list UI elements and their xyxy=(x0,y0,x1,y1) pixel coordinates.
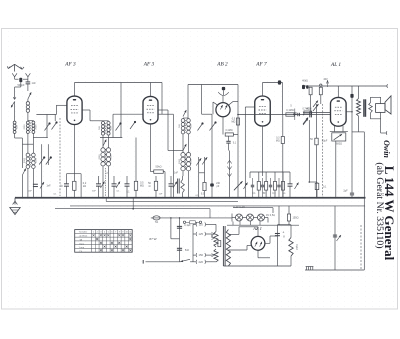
svg-text:2000: 2000 xyxy=(36,124,38,130)
svg-text:2nF: 2nF xyxy=(28,191,32,193)
svg-text:+: + xyxy=(282,230,284,234)
svg-text:5nF: 5nF xyxy=(92,191,96,193)
svg-text:40kΩ: 40kΩ xyxy=(302,80,308,83)
svg-text:Owin: Owin xyxy=(382,140,391,158)
svg-text:1nF: 1nF xyxy=(46,185,51,188)
svg-text:0,1MΩ: 0,1MΩ xyxy=(225,129,232,132)
svg-text:Schalter: Schalter xyxy=(79,231,87,234)
svg-text:kΩ: kΩ xyxy=(83,185,86,188)
svg-text:500pF: 500pF xyxy=(17,84,25,87)
svg-text:AL 1: AL 1 xyxy=(330,62,341,68)
svg-text:AF 7: AF 7 xyxy=(255,62,267,68)
svg-text:MΩ: MΩ xyxy=(276,140,280,143)
svg-text:0,7MΩ: 0,7MΩ xyxy=(302,107,309,110)
svg-text:5nF: 5nF xyxy=(185,249,190,252)
svg-text:220: 220 xyxy=(199,260,204,264)
svg-text:(ab Gerät Nr. 335110): (ab Gerät Nr. 335110) xyxy=(374,162,385,248)
svg-text:1nF: 1nF xyxy=(174,173,179,175)
svg-text:ab Werk: ab Werk xyxy=(79,235,88,238)
svg-text:600Ω: 600Ω xyxy=(336,143,342,146)
svg-text:50kΩ: 50kΩ xyxy=(156,166,162,169)
svg-text:5000: 5000 xyxy=(24,157,26,163)
svg-text:2000: 2000 xyxy=(36,157,38,163)
svg-text:MΩ: MΩ xyxy=(232,121,236,124)
svg-text:125: 125 xyxy=(199,232,204,236)
svg-text:0,1MΩ: 0,1MΩ xyxy=(286,109,294,112)
svg-text:7Ω: 7Ω xyxy=(155,220,158,224)
svg-text:2μF: 2μF xyxy=(343,190,348,193)
svg-text:110: 110 xyxy=(199,223,204,227)
svg-text:2000: 2000 xyxy=(24,124,26,130)
svg-text:40V: 40V xyxy=(323,78,328,81)
svg-text:Lang: Lang xyxy=(79,247,85,249)
svg-text:AB 2: AB 2 xyxy=(216,62,228,68)
svg-text:AZ 1: AZ 1 xyxy=(252,226,262,231)
svg-text:MΩ: MΩ xyxy=(140,185,144,188)
svg-text:Kurz: Kurz xyxy=(79,242,84,245)
svg-text:Feld: Feld xyxy=(295,244,299,250)
svg-text:AF 3: AF 3 xyxy=(64,62,76,68)
svg-text:150: 150 xyxy=(199,253,204,257)
svg-text:1nF: 1nF xyxy=(159,194,163,196)
svg-text:Ω: Ω xyxy=(149,185,151,188)
svg-text:150Ω: 150Ω xyxy=(292,217,298,220)
svg-text:1nF: 1nF xyxy=(31,82,36,85)
svg-text:AF 3: AF 3 xyxy=(143,62,155,68)
svg-text:87 W: 87 W xyxy=(149,237,156,241)
svg-text:4V 0,5A: 4V 0,5A xyxy=(266,214,275,217)
svg-text:0,1μF: 0,1μF xyxy=(184,224,191,227)
